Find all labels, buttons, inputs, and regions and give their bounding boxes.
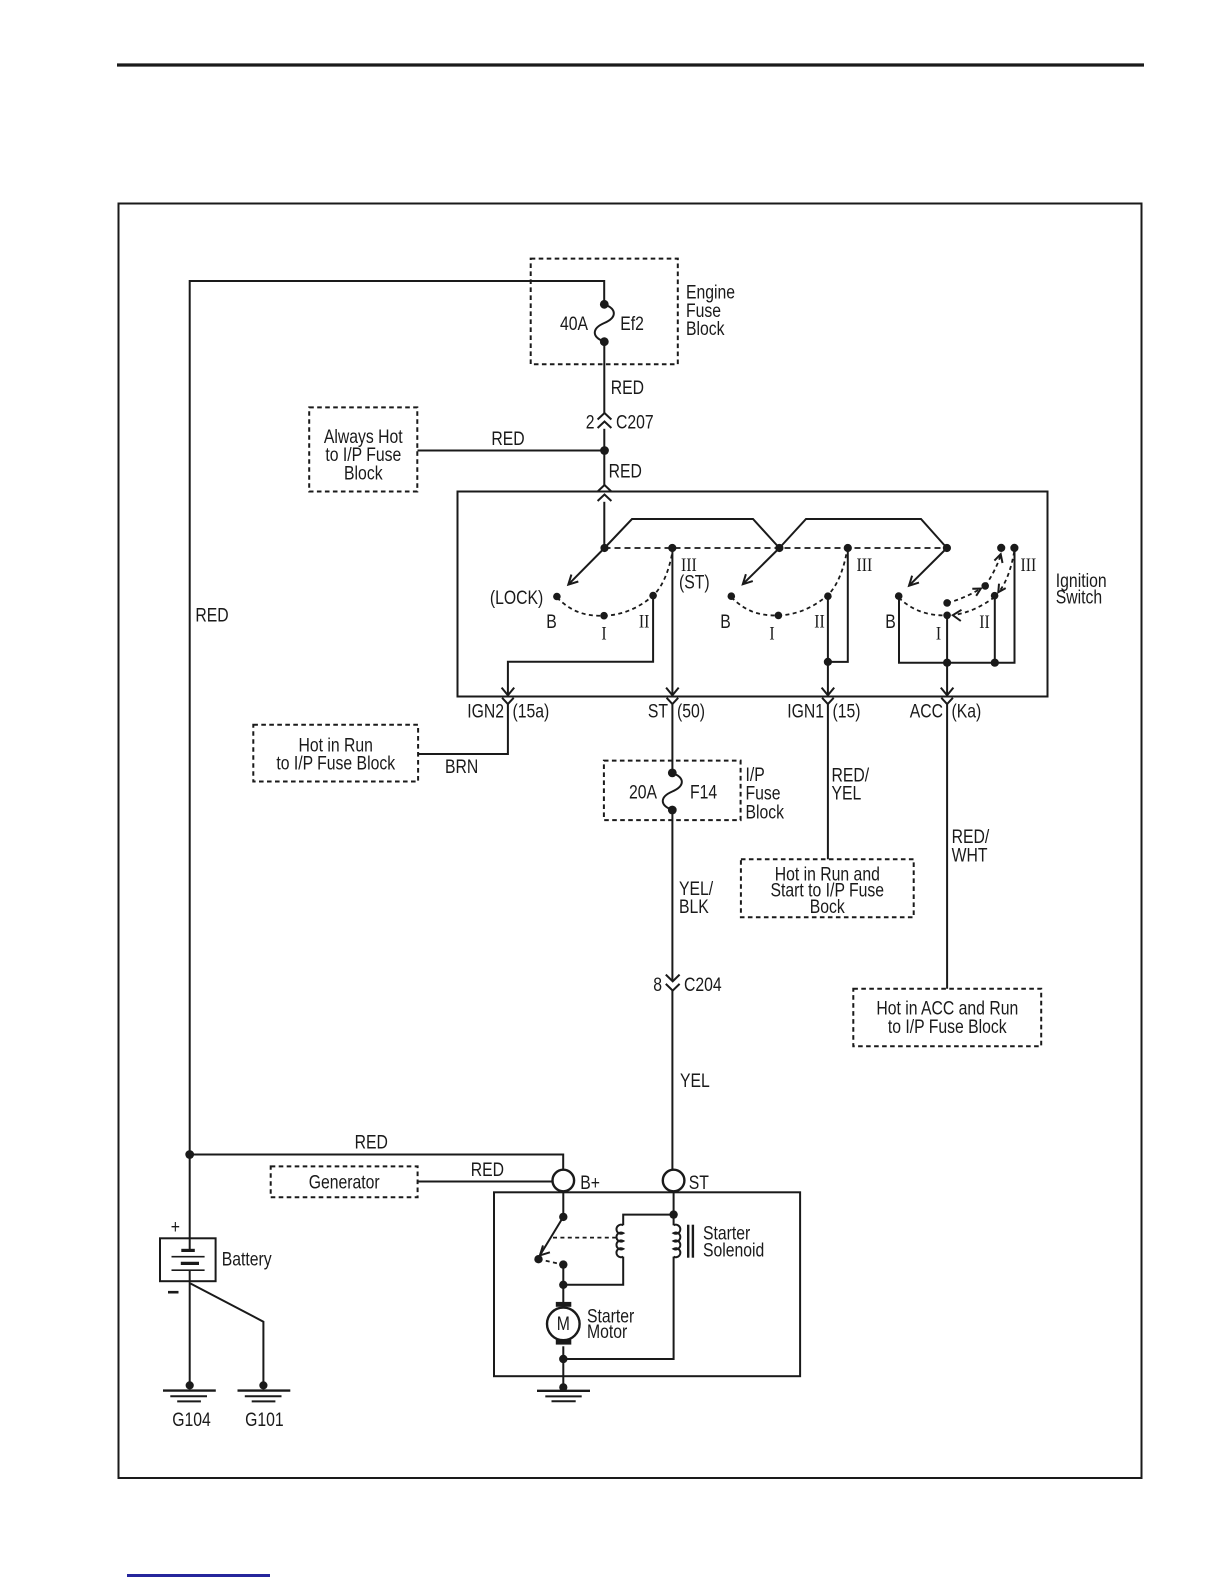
svg-text:B+: B+	[580, 1171, 600, 1193]
svg-text:II: II	[814, 610, 825, 632]
svg-text:(LOCK): (LOCK)	[490, 587, 543, 609]
svg-text:Block: Block	[746, 801, 785, 823]
svg-text:Motor: Motor	[587, 1320, 627, 1342]
svg-text:Block: Block	[344, 462, 383, 484]
svg-text:WHT: WHT	[952, 844, 988, 866]
svg-text:+: +	[171, 1216, 180, 1238]
svg-text:(ST): (ST)	[679, 571, 710, 593]
svg-text:40A: 40A	[560, 313, 588, 335]
svg-text:Battery: Battery	[222, 1248, 272, 1270]
svg-text:YEL: YEL	[680, 1069, 710, 1091]
svg-text:RED: RED	[355, 1131, 388, 1153]
svg-text:G104: G104	[172, 1409, 211, 1431]
svg-text:Ef2: Ef2	[620, 313, 644, 335]
svg-text:G101: G101	[245, 1409, 284, 1431]
svg-text:M: M	[557, 1313, 570, 1335]
svg-text:to I/P Fuse Block: to I/P Fuse Block	[888, 1015, 1007, 1037]
svg-text:B: B	[720, 611, 731, 633]
svg-text:B: B	[885, 611, 896, 633]
svg-text:II: II	[979, 611, 990, 633]
svg-text:IGN1: IGN1	[787, 700, 824, 722]
svg-text:III: III	[857, 554, 873, 576]
svg-text:RED: RED	[195, 604, 228, 626]
svg-text:I: I	[769, 622, 774, 644]
svg-text:RED: RED	[471, 1159, 504, 1181]
svg-text:C204: C204	[684, 973, 722, 995]
svg-text:Generator: Generator	[309, 1171, 380, 1193]
svg-text:8: 8	[653, 973, 662, 995]
svg-text:I: I	[601, 622, 606, 644]
svg-text:(50): (50)	[677, 700, 705, 722]
svg-text:Solenoid: Solenoid	[703, 1239, 764, 1261]
svg-text:RED: RED	[611, 377, 644, 399]
svg-text:Bock: Bock	[810, 895, 845, 917]
svg-text:C207: C207	[616, 411, 654, 433]
svg-text:ACC: ACC	[910, 700, 943, 722]
svg-text:YEL: YEL	[832, 782, 862, 804]
svg-text:Block: Block	[686, 318, 725, 340]
svg-text:II: II	[639, 610, 650, 632]
svg-text:to I/P Fuse Block: to I/P Fuse Block	[276, 752, 395, 774]
svg-text:RED: RED	[491, 427, 524, 449]
svg-text:Switch: Switch	[1056, 586, 1102, 608]
svg-text:IGN2: IGN2	[467, 700, 504, 722]
svg-text:I: I	[936, 622, 941, 644]
svg-text:RED: RED	[609, 460, 642, 482]
svg-text:F14: F14	[690, 781, 717, 803]
svg-text:(15): (15)	[833, 700, 861, 722]
svg-text:B: B	[546, 611, 557, 633]
svg-text:BLK: BLK	[679, 896, 709, 918]
svg-text:ST: ST	[689, 1171, 709, 1193]
svg-text:BRN: BRN	[445, 755, 478, 777]
svg-text:(Ka): (Ka)	[952, 700, 982, 722]
svg-text:ST: ST	[648, 700, 668, 722]
svg-text:(15a): (15a)	[513, 700, 550, 722]
svg-text:20A: 20A	[629, 781, 657, 803]
svg-text:III: III	[1021, 554, 1037, 576]
svg-text:2: 2	[586, 411, 595, 433]
